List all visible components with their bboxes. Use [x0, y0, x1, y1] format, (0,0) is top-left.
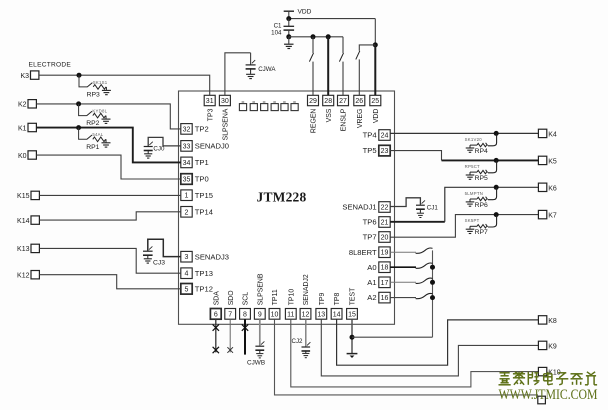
- switch to pin 27 ENSLP: [342, 37, 344, 53]
- junction RP5: [494, 158, 499, 163]
- node pin7 arrow bottom: [227, 347, 233, 353]
- svg-text:5LMPTN: 5LMPTN: [465, 191, 483, 196]
- pin 34 TP1: [181, 157, 192, 168]
- svg-text:9: 9: [258, 311, 262, 318]
- pin 10 TP11: [269, 309, 280, 320]
- label RP7: [475, 229, 488, 236]
- svg-text:104: 104: [271, 30, 282, 37]
- connector K0: [28, 151, 36, 159]
- ground RP6: [470, 199, 477, 202]
- wire pin14 TP8 to K8: [337, 319, 538, 365]
- capacitor CJWB: [255, 341, 264, 350]
- resistor RP1: [93, 137, 106, 142]
- wire RP2 stub: [79, 104, 87, 116]
- label RP3: [87, 92, 100, 99]
- switch pin17 A1: [390, 281, 416, 283]
- svg-text:17: 17: [381, 280, 389, 287]
- svg-text:K5: K5: [548, 158, 557, 165]
- switch to pin 26 VREG: [359, 45, 375, 51]
- resistor RP4: [477, 143, 487, 146]
- svg-text:21: 21: [381, 220, 389, 227]
- svg-text:26: 26: [355, 98, 363, 105]
- svg-text:ELECTRODE: ELECTRODE: [29, 62, 72, 69]
- connector K1: [28, 123, 36, 131]
- label CJ0: [153, 146, 165, 153]
- svg-text:SENADJ2: SENADJ2: [303, 274, 310, 305]
- svg-text:JTM228: JTM228: [257, 190, 307, 205]
- wire pin23 TP5 to K5: [390, 151, 441, 161]
- svg-text:SLPSENA: SLPSENA: [223, 108, 230, 140]
- pin 32 TP2: [181, 124, 192, 135]
- pin 7 SDO: [225, 309, 236, 320]
- wire K14: [40, 212, 181, 220]
- ground under C1: [288, 37, 290, 44]
- pin 29 REGEN: [308, 95, 319, 105]
- svg-text:5: 5: [185, 286, 189, 293]
- label CJWB: [247, 359, 265, 366]
- label CJ3: [153, 260, 165, 267]
- pin 27 ENSLP: [338, 95, 349, 105]
- wire K5 bold: [442, 159, 539, 161]
- svg-text:K2: K2: [18, 102, 27, 109]
- svg-text:RP5CT: RP5CT: [465, 164, 480, 169]
- node K12 label: [17, 273, 30, 280]
- power VDD symbol: [284, 11, 294, 18]
- node K3 label: [20, 73, 29, 80]
- switch RP1: [87, 135, 92, 140]
- svg-text:K1: K1: [18, 125, 27, 132]
- switch to pin 29 REGEN: [312, 37, 314, 53]
- connector K15: [31, 191, 39, 199]
- ground RP2: [105, 116, 107, 119]
- unconnected pin square 1: [239, 101, 246, 110]
- value label RP3 tiny: [93, 80, 108, 85]
- wire bus C1 to pins 29 28 27: [289, 36, 343, 38]
- svg-text:SK1S1: SK1S1: [93, 80, 108, 85]
- label RP1: [86, 144, 99, 151]
- svg-text:VSS: VSS: [326, 108, 333, 122]
- svg-text:6: 6: [214, 311, 218, 318]
- wire pin13 TP9 to K9: [321, 319, 538, 376]
- unconnected pin square 4: [271, 101, 278, 110]
- svg-text:K3: K3: [20, 73, 29, 80]
- junction RP6: [494, 185, 499, 190]
- ground CJ0: [144, 154, 152, 158]
- svg-text:TP1: TP1: [195, 158, 209, 167]
- pin 17 A1: [379, 277, 390, 288]
- junction bus pin29: [311, 34, 316, 39]
- svg-text:8L8ERT: 8L8ERT: [349, 248, 377, 257]
- junction RP4: [494, 131, 499, 136]
- node K4 label: [548, 131, 557, 138]
- switch pin18 A0: [390, 266, 416, 268]
- label RP6: [475, 202, 488, 209]
- node K8 label: [548, 318, 557, 325]
- svg-text:31: 31: [206, 98, 214, 105]
- resistor RP5: [477, 170, 487, 173]
- svg-text:TP5: TP5: [363, 146, 377, 155]
- wire TP6 riser to K6: [445, 187, 539, 222]
- svg-text:24: 24: [381, 133, 389, 140]
- svg-text:1: 1: [185, 193, 189, 200]
- pin 23 TP5: [379, 145, 390, 156]
- switch pin16 A2: [390, 297, 416, 299]
- unconnected pin square 5: [281, 101, 288, 110]
- value label C1 104: [274, 22, 282, 29]
- pin 20 TP7: [379, 232, 390, 243]
- value label RP4 tiny: [465, 137, 483, 142]
- svg-text:K12: K12: [17, 273, 30, 280]
- svg-text:K8: K8: [548, 318, 557, 325]
- junction RP3: [77, 73, 82, 78]
- svg-text:8: 8: [243, 311, 247, 318]
- svg-text:15: 15: [348, 311, 356, 318]
- connector K12: [31, 271, 39, 279]
- wire pin11 TP10 to K10: [291, 319, 538, 387]
- capacitor CJ0: [144, 142, 153, 151]
- pin 8 SCL: [240, 309, 251, 320]
- resistor RP2: [93, 113, 106, 118]
- capacitor CJ3: [143, 246, 153, 255]
- svg-text:RP6: RP6: [475, 202, 488, 209]
- wire pin12 to CJ2: [305, 319, 307, 346]
- node K1 label: [18, 125, 27, 132]
- svg-text:SK1V20: SK1V20: [465, 137, 483, 142]
- svg-text:20: 20: [381, 235, 389, 242]
- svg-text:K7: K7: [548, 213, 557, 220]
- pin 22 SENADJ1: [379, 202, 390, 213]
- svg-text:A2: A2: [367, 293, 376, 302]
- label RP4: [475, 148, 488, 155]
- wire VDD rail to pin25 column: [289, 18, 376, 20]
- pin 12 SENADJ2: [300, 309, 311, 320]
- ground RP5: [470, 172, 477, 175]
- svg-text:18: 18: [381, 265, 389, 272]
- junction VDD at C1 top: [286, 16, 291, 21]
- svg-text:SENADJ3: SENADJ3: [195, 252, 229, 261]
- pin 13 TP9: [316, 309, 327, 320]
- node K10 label: [548, 370, 561, 377]
- svg-text:TP6: TP6: [363, 218, 377, 227]
- ground RP3: [105, 87, 107, 90]
- connector K6: [538, 183, 546, 191]
- wire pin3 to CJ3: [148, 239, 181, 256]
- svg-text:SCL: SCL: [243, 292, 250, 306]
- value label RP2 tiny: [92, 109, 107, 114]
- label CJ2: [291, 338, 303, 345]
- svg-text:CJ3: CJ3: [153, 260, 165, 267]
- svg-text:RP5: RP5: [475, 175, 488, 182]
- pin 16 A2: [379, 292, 390, 303]
- svg-text:35: 35: [183, 177, 191, 184]
- wire K1: [37, 128, 181, 163]
- svg-text:23: 23: [381, 148, 389, 155]
- svg-text:TP10: TP10: [288, 289, 295, 306]
- value label RP7 tiny: [465, 218, 480, 223]
- svg-text:32: 32: [183, 126, 191, 133]
- wire RP1 stub: [79, 128, 87, 140]
- wire pin8 SCL external bold: [244, 319, 246, 354]
- svg-text:SDA: SDA: [213, 291, 220, 306]
- value label RP5 tiny: [465, 164, 480, 169]
- svg-text:K13: K13: [17, 246, 30, 253]
- svg-text:K15: K15: [17, 193, 30, 200]
- wire pin25 VDD column: [374, 19, 376, 45]
- wire pin30 to CJWA: [225, 53, 251, 96]
- wire K2: [37, 104, 181, 129]
- switch RP4: [486, 133, 497, 145]
- node K9 label: [548, 343, 557, 350]
- wire pin33 to CJ0: [148, 137, 181, 146]
- unconnected pin square 2: [250, 101, 257, 110]
- svg-text:K4: K4: [548, 131, 557, 138]
- ground RP7: [470, 226, 477, 229]
- IC U1 JTM228 body: [179, 91, 395, 324]
- resistor RP3: [93, 85, 106, 90]
- node K15 label: [17, 193, 30, 200]
- svg-text:29: 29: [309, 98, 317, 105]
- junction TEST: [350, 335, 355, 340]
- pin 28 VSS: [323, 95, 334, 105]
- pin 3 SENADJ3: [181, 251, 192, 262]
- ground CJWA: [246, 74, 255, 78]
- ground RP4: [470, 145, 477, 148]
- svg-text:22: 22: [381, 205, 389, 212]
- capacitor CJ2: [302, 342, 311, 351]
- svg-text:SENADJ1: SENADJ1: [342, 203, 376, 212]
- svg-text:CJ2: CJ2: [291, 338, 303, 345]
- svg-text:K9: K9: [548, 343, 557, 350]
- svg-text:28: 28: [324, 98, 332, 105]
- svg-text:RP7: RP7: [475, 229, 488, 236]
- svg-text:10: 10: [271, 311, 279, 318]
- ground RP1: [105, 139, 107, 142]
- svg-text:25: 25: [371, 98, 379, 105]
- svg-text:30: 30: [221, 98, 229, 105]
- junction RP7: [494, 212, 499, 217]
- pin 25 VDD: [370, 95, 381, 105]
- svg-text:A1: A1: [367, 278, 376, 287]
- svg-text:CJWB: CJWB: [247, 359, 265, 366]
- svg-text:TP7: TP7: [363, 233, 377, 242]
- node pin6 arrow bottom: [213, 347, 219, 353]
- node ELECTRODE label: [29, 62, 72, 69]
- wire K13: [40, 248, 181, 273]
- svg-text:SK5PT: SK5PT: [465, 218, 480, 223]
- connector K5: [538, 156, 546, 164]
- svg-text:TP11: TP11: [272, 289, 279, 305]
- svg-text:VREG: VREG: [357, 109, 364, 129]
- junction C1 bottom bus: [286, 34, 291, 39]
- junction RP2: [76, 101, 81, 106]
- connector K9: [538, 341, 546, 349]
- svg-text:K6: K6: [548, 185, 557, 192]
- pin 26 VREG: [354, 95, 365, 105]
- svg-text:2: 2: [185, 209, 189, 216]
- label RP2: [86, 120, 99, 127]
- junction VDD pin26 branch: [373, 42, 378, 47]
- pin 6 SDA: [210, 309, 221, 320]
- svg-text:TP15: TP15: [195, 191, 213, 200]
- connector K8: [538, 316, 546, 324]
- svg-text:TP12: TP12: [195, 284, 213, 293]
- value label RP6 tiny: [465, 191, 483, 196]
- wire pin20 TP7 to K7: [390, 215, 538, 238]
- wire pin15 TEST to ground: [351, 319, 353, 353]
- svg-text:ENSLP: ENSLP: [341, 108, 348, 131]
- watermark url text: [499, 387, 598, 403]
- pin 4 TP13: [181, 268, 192, 279]
- svg-text:27: 27: [339, 98, 347, 105]
- wire TEST to A-net: [352, 336, 433, 338]
- junction RP1: [76, 125, 81, 130]
- watermark chinese text: [499, 372, 598, 385]
- unconnected pin square 3: [261, 101, 268, 110]
- connector K11: [538, 396, 546, 404]
- svg-text:A0: A0: [367, 263, 376, 272]
- pin 18 A0: [379, 262, 390, 273]
- svg-text:TP8: TP8: [334, 292, 341, 305]
- pin 1 TP15: [181, 190, 192, 201]
- ground CJ2: [302, 353, 309, 357]
- ground CJ3: [144, 259, 152, 263]
- switch RP2: [87, 111, 92, 116]
- resistor RP7: [477, 225, 487, 228]
- resistor RP6: [477, 197, 487, 200]
- svg-text:TP4: TP4: [363, 131, 377, 140]
- capacitor C1: [284, 19, 295, 37]
- svg-text:7: 7: [228, 311, 232, 318]
- svg-text:4: 4: [185, 271, 189, 278]
- pin 30 SLPSENA: [219, 95, 230, 105]
- wire pin7 SDO external: [229, 319, 231, 352]
- svg-text:CJWA: CJWA: [258, 66, 276, 73]
- svg-text:SLPSENB: SLPSENB: [257, 273, 264, 305]
- pin 19 8L8ERT: [379, 247, 390, 258]
- label CJ1: [427, 205, 439, 212]
- svg-text:C1: C1: [274, 22, 282, 29]
- svg-text:RP1: RP1: [86, 144, 99, 151]
- svg-text:RP3: RP3: [87, 92, 100, 99]
- node VDD label: [298, 9, 312, 16]
- switch RP7: [486, 215, 497, 227]
- wire pin9 to CJWB: [259, 319, 261, 346]
- svg-text:12: 12: [302, 311, 310, 318]
- pin 2 TP14: [181, 207, 192, 218]
- pin 5 TP12: [181, 284, 192, 295]
- svg-text:RP2: RP2: [86, 120, 99, 127]
- connector K3: [31, 71, 39, 79]
- svg-text:11: 11: [287, 311, 294, 318]
- svg-text:SENADJ0: SENADJ0: [195, 142, 229, 151]
- node K6 label: [548, 185, 557, 192]
- wire K3: [39, 75, 210, 95]
- svg-text:14: 14: [333, 311, 341, 318]
- node K0 label: [18, 153, 27, 160]
- wire pin10 TP11 to K11: [275, 319, 539, 395]
- ground CJ1: [417, 213, 424, 217]
- switch RP5: [486, 160, 497, 172]
- pin 9 SLPSENB: [254, 309, 265, 320]
- svg-text:TEST: TEST: [350, 287, 357, 305]
- node pin6 arrow top: [213, 324, 219, 330]
- capacitor CJ1: [416, 200, 425, 209]
- svg-text:34: 34: [183, 160, 191, 167]
- svg-text:19: 19: [381, 250, 389, 257]
- svg-text:CJ1: CJ1: [427, 205, 439, 212]
- connector K13: [31, 244, 39, 252]
- wire pin21 TP6 bold: [390, 221, 445, 223]
- node K14 label: [17, 218, 30, 225]
- wire pin22 to CJ1: [390, 198, 420, 207]
- unconnected pin square 6: [291, 101, 298, 110]
- svg-text:TP14: TP14: [195, 207, 213, 216]
- connector K7: [538, 210, 546, 218]
- svg-text:KYD8L: KYD8L: [92, 109, 107, 114]
- node pin8 arrow top: [242, 324, 248, 330]
- svg-text:CJ0: CJ0: [153, 146, 165, 153]
- svg-text:K14: K14: [17, 218, 30, 225]
- pin 15 TEST: [347, 309, 358, 320]
- svg-text:RP4: RP4: [475, 148, 488, 155]
- wire RP3 stub: [79, 75, 87, 87]
- svg-text:TP9: TP9: [319, 292, 326, 305]
- node K13 label: [17, 246, 30, 253]
- chip name label JTM228: [257, 190, 307, 205]
- value label RP1 tiny: [92, 132, 103, 137]
- wire pin6 SDA external: [215, 319, 217, 352]
- connector K2: [28, 100, 36, 108]
- node K7 label: [548, 213, 557, 220]
- pin 14 TP8: [331, 309, 342, 320]
- svg-text:SDO: SDO: [228, 290, 235, 306]
- capacitor CJWA: [250, 53, 252, 65]
- svg-text:K0: K0: [18, 153, 27, 160]
- svg-text:TP2: TP2: [195, 125, 209, 134]
- wire A-net vertical: [432, 250, 434, 337]
- junction bus pin28: [326, 34, 331, 39]
- pin 11 TP10: [285, 309, 296, 320]
- wire pin 28 VSS bold: [327, 37, 329, 96]
- label RP5: [475, 175, 488, 182]
- svg-text:33: 33: [183, 143, 191, 150]
- node K2 label: [18, 102, 27, 109]
- switch RP3: [87, 83, 92, 88]
- wire pin24 TP4 to K4: [390, 132, 538, 134]
- switch RP6: [486, 187, 497, 199]
- pin 35 TP0: [181, 174, 192, 185]
- pin 24 TP4: [379, 130, 390, 141]
- svg-text:WWW.JTMIC.COM: WWW.JTMIC.COM: [499, 387, 598, 403]
- connector K4: [538, 129, 546, 137]
- svg-text:VDD: VDD: [298, 9, 312, 16]
- pin 21 TP6: [379, 217, 390, 228]
- svg-text:54AL: 54AL: [92, 132, 103, 137]
- pin 31 TP3: [204, 95, 215, 105]
- svg-text:3: 3: [185, 254, 189, 261]
- svg-text:TP0: TP0: [195, 175, 209, 184]
- wire K0: [37, 155, 181, 179]
- wire VDD into pin 25 bold: [374, 45, 376, 95]
- svg-text:VDD: VDD: [373, 109, 380, 124]
- svg-text:TP13: TP13: [195, 269, 213, 278]
- connector K14: [31, 216, 39, 224]
- connector K10: [538, 367, 546, 375]
- svg-text:TP3: TP3: [207, 108, 214, 121]
- wire K15: [40, 194, 181, 196]
- switch pin19 8L8ERT: [390, 251, 416, 253]
- label CJWA: [258, 66, 276, 73]
